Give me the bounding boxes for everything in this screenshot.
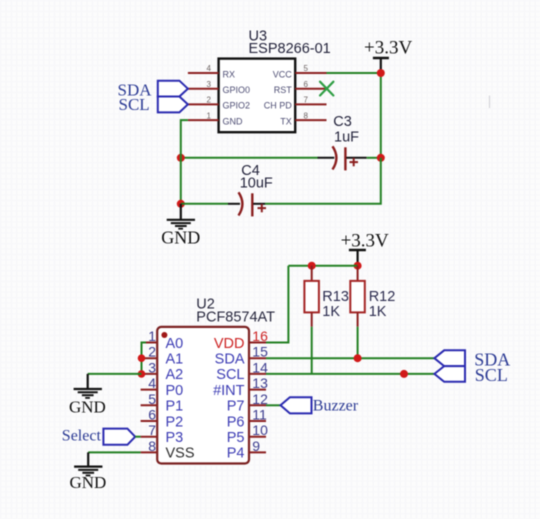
svg-text:A1: A1: [166, 352, 184, 368]
wire Select to P3: [135, 436, 140, 438]
U2 pin1 marker dot: [161, 332, 167, 338]
U3 pin 2 GPIO2: [188, 96, 250, 111]
svg-text:4: 4: [148, 375, 156, 391]
capacitor C4: [228, 192, 266, 216]
svg-text:11: 11: [252, 407, 267, 423]
U2 pin 4 P0: [141, 375, 184, 399]
svg-text:VDD: VDD: [214, 336, 245, 352]
svg-text:P2: P2: [166, 414, 184, 430]
connector SCL (right): [434, 366, 465, 382]
svg-text:GND: GND: [161, 227, 200, 247]
U3 pin 5 VCC: [273, 64, 327, 79]
svg-text:#INT: #INT: [213, 383, 245, 399]
svg-text:TX: TX: [280, 116, 292, 126]
svg-text:9: 9: [252, 438, 260, 454]
wire C4 row right + corner up: [265, 158, 381, 204]
U3 pin 4 RX: [188, 64, 235, 79]
U2 pin 16 VDD: [214, 328, 268, 352]
U2 pin 5 P1: [141, 391, 184, 415]
wire VCC pin5 to +3.3V rail: [327, 72, 381, 74]
svg-text:GND: GND: [70, 473, 107, 492]
U2 pin 9 P4: [227, 438, 266, 462]
svg-text:16: 16: [252, 328, 268, 344]
svg-text:RX: RX: [223, 69, 236, 79]
U3 pin 3 GPIO0: [188, 80, 250, 95]
svg-text:Buzzer: Buzzer: [313, 397, 359, 414]
svg-text:ESP8266-01: ESP8266-01: [249, 41, 331, 57]
wire A0-A1-A2 tie: [142, 343, 147, 374]
junction SCL row: [400, 370, 408, 378]
svg-text:13: 13: [252, 375, 268, 391]
wire VSS to ground: [88, 451, 140, 453]
svg-text:2: 2: [148, 344, 156, 360]
connector SCL to GPIO2: [158, 97, 188, 113]
capacitor C3: [318, 146, 367, 170]
U2 pin 1 A0: [141, 328, 184, 352]
svg-text:SCL: SCL: [475, 365, 508, 385]
U3 pin 8 TX: [280, 111, 326, 126]
svg-text:8: 8: [304, 111, 309, 120]
svg-text:5: 5: [304, 64, 309, 73]
svg-text:1: 1: [148, 328, 156, 344]
svg-text:PCF8574AT: PCF8574AT: [196, 309, 275, 325]
svg-text:A2: A2: [166, 367, 184, 383]
U3 pin 6 RST: [274, 80, 327, 95]
ground GND (top): [161, 204, 200, 248]
svg-text:VCC: VCC: [273, 69, 293, 79]
svg-text:C3: C3: [333, 114, 352, 130]
connector SDA (right): [434, 350, 465, 366]
junction C4 row / GND rail: [177, 200, 185, 208]
junction C3 row / GND rail: [177, 154, 185, 162]
IC U2 body: [157, 327, 249, 464]
svg-text:R13: R13: [322, 289, 349, 305]
svg-text:P3: P3: [166, 430, 184, 446]
wire C4 row left: [181, 203, 228, 205]
U2 pin 6 P2: [141, 407, 184, 431]
svg-text:P0: P0: [166, 383, 184, 399]
svg-text:P1: P1: [166, 399, 184, 415]
junction A2: [138, 370, 146, 378]
svg-text:GPIO2: GPIO2: [223, 101, 251, 111]
wire C3 right to rail: [367, 157, 381, 159]
junction SDA / R12: [354, 354, 362, 362]
svg-text:4: 4: [207, 64, 212, 73]
junction C3 / +3.3V rail: [377, 154, 385, 162]
svg-text:A0: A0: [166, 336, 184, 352]
wire +3.3V rail down to U2 VDD: [266, 266, 288, 343]
resistor R12: [350, 266, 365, 327]
wire +3.3V vertical rail: [380, 73, 382, 158]
ground GND (A0-A2): [69, 374, 106, 417]
power port +3.3V (top): [364, 38, 412, 72]
junction VCC/+3.3V: [377, 69, 385, 77]
svg-text:5: 5: [148, 391, 156, 407]
wire R12 to SDA row: [357, 327, 359, 359]
svg-text:Select: Select: [62, 427, 102, 444]
ground GND (VSS): [70, 452, 107, 492]
wire SDA row: [266, 357, 434, 359]
connector Select to P3: [103, 429, 135, 445]
U2 pin 8 VSS: [141, 438, 195, 462]
svg-text:CH PD: CH PD: [264, 101, 293, 111]
U3 pin 1 GND: [188, 111, 243, 126]
faint grid major line fragment: [489, 96, 491, 109]
svg-text:3: 3: [148, 359, 156, 375]
U2 pin 11 P6: [227, 407, 267, 431]
wire C3 row left (GND side): [181, 157, 318, 159]
svg-text:2: 2: [207, 96, 212, 105]
svg-text:VSS: VSS: [166, 446, 195, 462]
U2 pin 10 P5: [227, 422, 268, 446]
svg-text:8: 8: [148, 438, 156, 454]
svg-text:P5: P5: [227, 430, 245, 446]
svg-text:12: 12: [252, 391, 268, 407]
wire P7 to Buzzer: [266, 404, 281, 406]
IC U3 body: [219, 59, 296, 133]
svg-text:P7: P7: [227, 399, 245, 415]
wire A2 to ground: [88, 373, 142, 375]
wire SCL row: [266, 373, 434, 375]
U2 pin 3 A2: [141, 359, 184, 383]
svg-text:6: 6: [148, 407, 156, 423]
power port +3.3V (lower): [341, 231, 389, 264]
svg-text:1K: 1K: [322, 304, 340, 320]
connector SDA to GPIO0: [158, 81, 188, 97]
svg-text:7: 7: [148, 422, 156, 438]
svg-text:7: 7: [304, 96, 309, 105]
svg-text:SCL: SCL: [216, 367, 244, 383]
U3 pin 7 CH_PD: [264, 96, 327, 111]
svg-text:3: 3: [207, 80, 212, 89]
resistor R13: [304, 266, 319, 327]
U2 pin 12 P7: [227, 391, 268, 415]
U2 pin 14 SCL: [216, 359, 268, 383]
no-connect X on RST pin: [320, 82, 333, 96]
svg-text:1: 1: [207, 111, 212, 120]
svg-text:6: 6: [304, 80, 309, 89]
U2 pin 13 #INT: [213, 375, 268, 399]
svg-text:GND: GND: [223, 116, 244, 126]
wire R13 to SCL row: [311, 327, 313, 374]
junction +3.3V lower: [354, 262, 362, 270]
U2 pin 15 SDA: [215, 344, 268, 368]
svg-text:R12: R12: [369, 289, 396, 305]
U2 pin 7 P3: [141, 422, 184, 446]
junction A1: [138, 354, 146, 362]
svg-text:SDA: SDA: [215, 352, 245, 368]
svg-text:1uF: 1uF: [334, 129, 359, 145]
svg-text:10: 10: [252, 422, 268, 438]
svg-text:P4: P4: [227, 446, 245, 462]
svg-text:GPIO0: GPIO0: [223, 85, 251, 95]
svg-text:10uF: 10uF: [240, 175, 273, 191]
svg-text:+3.3V: +3.3V: [364, 38, 412, 59]
svg-text:+3.3V: +3.3V: [341, 231, 389, 252]
svg-text:RST: RST: [274, 85, 293, 95]
wire GND rail vertical (from U3 pin1): [181, 120, 188, 204]
svg-text:GND: GND: [69, 397, 106, 416]
connector Buzzer: [281, 397, 312, 413]
svg-text:SCL: SCL: [119, 95, 150, 114]
junction R13 top: [308, 262, 316, 270]
wire +3.3V top rail (lower section): [288, 265, 357, 267]
svg-text:14: 14: [252, 359, 268, 375]
svg-text:1K: 1K: [369, 304, 387, 320]
svg-text:15: 15: [252, 344, 268, 360]
svg-text:P6: P6: [227, 414, 245, 430]
U2 pin 2 A1: [141, 344, 184, 368]
